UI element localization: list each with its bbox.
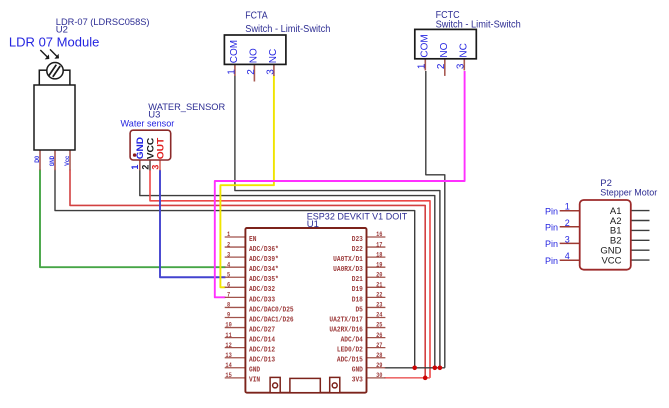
svg-text:D5: D5	[355, 306, 362, 314]
svg-text:1: 1	[226, 69, 237, 75]
svg-text:ADC/D39*: ADC/D39*	[249, 256, 279, 264]
svg-text:GND: GND	[50, 155, 56, 166]
svg-text:NO: NO	[249, 48, 260, 63]
svg-text:GND: GND	[352, 367, 363, 375]
svg-text:25: 25	[376, 322, 383, 329]
svg-text:22: 22	[376, 292, 383, 299]
svg-text:23: 23	[376, 302, 383, 309]
svg-text:ADC/D36*: ADC/D36*	[249, 246, 279, 254]
svg-text:Pin: Pin	[545, 256, 558, 266]
svg-text:VCC: VCC	[601, 255, 621, 266]
svg-text:UA0RX/D3: UA0RX/D3	[333, 266, 363, 274]
svg-text:28: 28	[376, 352, 383, 359]
svg-text:3: 3	[565, 234, 570, 244]
svg-text:UA0TX/D1: UA0TX/D1	[333, 256, 363, 264]
svg-text:12: 12	[225, 342, 232, 349]
svg-text:27: 27	[376, 342, 383, 349]
svg-text:LDR-07 (LDRSC058S): LDR-07 (LDRSC058S)	[56, 17, 150, 28]
svg-text:OUT: OUT	[155, 137, 165, 159]
svg-text:9: 9	[227, 312, 230, 319]
svg-text:ADC/DAC1/D26: ADC/DAC1/D26	[249, 316, 294, 324]
svg-text:GND: GND	[249, 367, 260, 375]
svg-text:1: 1	[227, 231, 230, 238]
svg-text:COM: COM	[420, 34, 431, 57]
svg-text:D19: D19	[352, 286, 363, 294]
svg-text:20: 20	[376, 271, 383, 278]
svg-text:NC: NC	[459, 43, 470, 57]
svg-text:ADC/D13: ADC/D13	[249, 357, 275, 365]
svg-text:24: 24	[376, 312, 383, 319]
svg-text:29: 29	[376, 362, 383, 369]
svg-text:2: 2	[246, 69, 257, 75]
svg-text:Switch - Limit-Switch: Switch - Limit-Switch	[245, 24, 330, 35]
svg-text:3V3: 3V3	[352, 377, 363, 385]
svg-text:8: 8	[227, 302, 230, 309]
svg-text:UA2RX/D16: UA2RX/D16	[329, 326, 362, 334]
svg-text:3: 3	[150, 165, 160, 170]
svg-text:3: 3	[456, 63, 467, 69]
svg-text:18: 18	[376, 251, 383, 258]
svg-text:16: 16	[376, 231, 383, 238]
svg-text:Stepper Motor: Stepper Motor	[600, 188, 657, 199]
svg-text:2: 2	[227, 241, 230, 248]
svg-text:17: 17	[376, 241, 383, 248]
svg-text:4: 4	[565, 251, 570, 261]
svg-text:LDR 07 Module: LDR 07 Module	[9, 35, 100, 50]
svg-text:ADC/D12: ADC/D12	[249, 347, 275, 355]
svg-text:1: 1	[130, 165, 140, 170]
svg-text:2: 2	[436, 63, 447, 69]
svg-text:26: 26	[376, 332, 383, 339]
svg-text:GND: GND	[135, 137, 145, 160]
svg-text:D22: D22	[352, 246, 363, 254]
svg-text:ADC/D15: ADC/D15	[337, 357, 363, 365]
svg-text:6: 6	[227, 282, 230, 289]
svg-text:5: 5	[227, 271, 230, 278]
svg-text:ADC/D27: ADC/D27	[249, 326, 275, 334]
svg-text:Vcc: Vcc	[65, 155, 71, 166]
svg-text:NC: NC	[268, 49, 279, 63]
svg-text:19: 19	[376, 261, 383, 268]
svg-text:Pin: Pin	[545, 222, 558, 232]
svg-text:3: 3	[227, 251, 230, 258]
svg-text:10: 10	[225, 322, 232, 329]
svg-text:30: 30	[376, 372, 383, 379]
svg-text:ADC/DAC0/D25: ADC/DAC0/D25	[249, 306, 294, 314]
svg-text:1: 1	[565, 202, 570, 212]
svg-text:LED0/D2: LED0/D2	[337, 347, 363, 355]
svg-text:ADC/D14: ADC/D14	[249, 337, 275, 345]
svg-text:D23: D23	[352, 236, 363, 244]
svg-text:VCC: VCC	[145, 137, 155, 159]
svg-text:D18: D18	[352, 296, 363, 304]
svg-text:Pin: Pin	[545, 239, 558, 249]
svg-text:ADC/D32: ADC/D32	[249, 286, 275, 294]
svg-text:Pin: Pin	[545, 206, 558, 216]
svg-text:ADC/D35*: ADC/D35*	[249, 276, 279, 284]
svg-text:D21: D21	[352, 276, 363, 284]
svg-text:3: 3	[265, 69, 276, 75]
svg-text:15: 15	[225, 372, 232, 379]
svg-text:D0: D0	[35, 155, 41, 162]
svg-text:ADC/D34*: ADC/D34*	[249, 266, 279, 274]
svg-text:11: 11	[225, 332, 232, 339]
svg-text:1: 1	[417, 63, 428, 69]
svg-text:2: 2	[140, 165, 150, 170]
svg-text:13: 13	[225, 352, 232, 359]
svg-text:EN: EN	[249, 236, 256, 244]
svg-text:14: 14	[225, 362, 232, 369]
svg-text:ADC/D4: ADC/D4	[341, 337, 363, 345]
svg-text:VIN: VIN	[249, 377, 260, 385]
svg-text:21: 21	[376, 282, 383, 289]
svg-text:7: 7	[227, 292, 230, 299]
svg-text:4: 4	[227, 261, 230, 268]
svg-text:Water sensor: Water sensor	[121, 119, 175, 130]
svg-text:ADC/D33: ADC/D33	[249, 296, 275, 304]
svg-text:COM: COM	[229, 40, 240, 63]
svg-text:FCTA: FCTA	[245, 11, 268, 22]
svg-text:NO: NO	[439, 42, 450, 57]
svg-text:ESP32 DEVKIT V1 DOIT: ESP32 DEVKIT V1 DOIT	[307, 211, 408, 222]
svg-text:2: 2	[565, 218, 570, 228]
svg-text:UA2TX/D17: UA2TX/D17	[329, 316, 362, 324]
